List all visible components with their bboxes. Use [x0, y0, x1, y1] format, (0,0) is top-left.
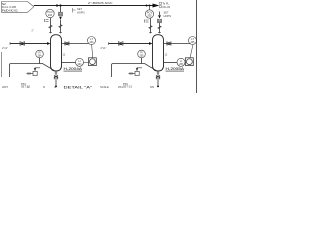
- border right: [196, 0, 198, 93]
- svg-text:2": 2": [32, 30, 34, 33]
- zigzag left vertical: [49, 25, 52, 28]
- note bracket left unit: [73, 8, 76, 13]
- zigzag right vertical: [59, 25, 62, 28]
- left side bubble PI: [36, 50, 44, 58]
- svg-text:LI: LI: [180, 60, 182, 63]
- header arrow: [153, 4, 160, 8]
- left vertical to vessel: [50, 21, 52, 33]
- svg-text:P&ID-NC-02: P&ID-NC-02: [2, 9, 18, 13]
- feed end tick: [9, 42, 11, 45]
- left side bubble PI right unit: [138, 50, 146, 58]
- psv loop pipe: [10, 64, 56, 78]
- svg-text:205: 205: [147, 15, 152, 18]
- feed valve: [20, 42, 25, 46]
- svg-text:DETAIL "A": DETAIL "A": [64, 85, 93, 90]
- svg-text:NC-03: NC-03: [163, 5, 171, 9]
- junction dot right 2: [149, 5, 151, 7]
- svg-text:PI: PI: [140, 52, 143, 55]
- svg-text:25m: 25m: [118, 85, 124, 89]
- right unit second vertical: [159, 12, 161, 16]
- svg-text:LT: LT: [90, 38, 93, 41]
- svg-text:LI: LI: [78, 60, 80, 63]
- svg-text:HOPN: HOPN: [164, 14, 172, 18]
- bubble LT right: [189, 37, 197, 45]
- svg-text:H-2004A: H-2004A: [64, 67, 84, 71]
- bottom annotation strip: [2, 85, 154, 90]
- svg-text:PI: PI: [38, 52, 41, 55]
- signal drop: [92, 45, 93, 58]
- feed arrow into vessel: [47, 42, 51, 45]
- psv loop pipe right: [112, 64, 158, 78]
- svg-text:2"x1": 2"x1": [101, 46, 107, 50]
- instrument bubble PCV: [46, 9, 54, 17]
- svg-text:2"x1": 2"x1": [2, 46, 8, 50]
- junction dot 2: [59, 4, 61, 6]
- flange tick right nozzle: [59, 32, 62, 34]
- svg-text:LT: LT: [191, 38, 194, 41]
- bottom drop: [55, 71, 57, 76]
- bubble LT: [88, 37, 96, 45]
- svg-text:A: A: [27, 85, 29, 89]
- valve on drop: [59, 12, 63, 16]
- top right tap line: [62, 43, 89, 45]
- bottom drop right: [157, 71, 159, 76]
- feed line right unit: [109, 43, 150, 45]
- flow arrow down: [59, 17, 62, 20]
- shared display square: [89, 58, 97, 66]
- vessel V2: [153, 35, 164, 71]
- svg-text:2"-B0605-NCF: 2"-B0605-NCF: [88, 1, 113, 5]
- header pipe: [34, 5, 154, 7]
- svg-text:N2: N2: [2, 2, 6, 6]
- top right tap line: [164, 43, 191, 45]
- flange tick left nozzle: [49, 32, 52, 34]
- valve drop from header: [60, 6, 62, 13]
- junction dot 1: [56, 4, 58, 6]
- svg-text:SET 3.5: SET 3.5: [21, 86, 31, 89]
- svg-text:H-2005A: H-2005A: [166, 67, 186, 71]
- svg-text:N: N: [43, 85, 45, 89]
- svg-text:204: 204: [48, 14, 53, 17]
- bubble LI: [76, 58, 84, 66]
- lower right line: [62, 62, 76, 64]
- tap valve: [65, 42, 69, 45]
- svg-text:NN: NN: [150, 85, 154, 89]
- svg-text:4t: 4t: [54, 85, 56, 89]
- svg-text:HOPN: HOPN: [77, 10, 85, 14]
- svg-text:To FL: To FL: [163, 1, 170, 5]
- psv assembly: [27, 73, 34, 75]
- svg-text:SET 3.5: SET 3.5: [123, 86, 133, 89]
- instrument bubble PCV right: [145, 10, 153, 18]
- vessel V1: [51, 35, 62, 71]
- off-page connector flag: [2, 2, 34, 13]
- bubble stem: [50, 18, 52, 21]
- feed line: [10, 43, 47, 45]
- pilot ticks: [45, 19, 49, 22]
- svg-text:2007: 2007: [2, 85, 8, 89]
- junction dot right 1: [146, 5, 148, 7]
- svg-text:SCALE: SCALE: [100, 85, 109, 89]
- lower right line: [164, 62, 178, 64]
- border left partial: [1, 52, 3, 77]
